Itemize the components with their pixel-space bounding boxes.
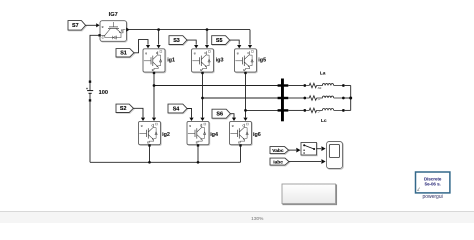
wire ig6 E to rail <box>240 146 242 162</box>
from tag Iabc <box>270 158 290 166</box>
svg-text:La: La <box>320 71 326 77</box>
svg-text:E: E <box>243 68 245 72</box>
svg-text:ig1: ig1 <box>167 58 175 64</box>
svg-text:Iabc: Iabc <box>273 159 283 165</box>
IGBT block ig1 <box>143 49 166 73</box>
wire load neutral <box>350 86 352 111</box>
from tag Vabc <box>270 147 289 155</box>
port square IG7 C <box>98 34 100 36</box>
port square ig5 E <box>244 72 246 74</box>
node dot left Lb <box>303 97 306 100</box>
junction dot phase C <box>244 109 247 112</box>
port square ig6 E <box>239 144 241 146</box>
svg-text:S5: S5 <box>216 38 223 44</box>
wire bus to branch La <box>288 85 303 87</box>
wire phase C node <box>246 74 281 118</box>
node dot left Lc <box>303 109 306 112</box>
wire drop to ig1 C <box>157 30 161 49</box>
bus bar tick phase C <box>278 109 289 111</box>
junction dot top bus phase B <box>206 28 209 31</box>
wire manual switch to scope <box>317 146 326 151</box>
arrow into ig5 C <box>248 45 252 48</box>
wire DC source minus down to bottom rail <box>89 102 91 163</box>
wire Iabc to scope <box>289 159 326 164</box>
DC voltage source 100V battery <box>86 83 93 99</box>
junction dot rail ig4 <box>197 161 200 164</box>
junction dot phase B <box>201 97 204 100</box>
wire S5 to ig5 gate <box>230 40 242 48</box>
svg-text:ig4: ig4 <box>210 132 218 138</box>
node dot right La <box>342 84 345 87</box>
svg-text:E: E <box>200 68 202 72</box>
svg-text:E: E <box>196 140 198 144</box>
IGBT block ig3 <box>192 49 215 73</box>
IGBT block ig4 <box>187 121 210 145</box>
resistor Lb <box>306 96 316 101</box>
svg-text:5e-06 s.: 5e-06 s. <box>425 181 441 186</box>
port arrow IG7 E output <box>126 28 129 32</box>
node dot left La <box>303 84 306 87</box>
svg-text:g: g <box>145 51 147 55</box>
wire branch La to neutral <box>345 85 351 87</box>
goto tag S3 <box>169 36 188 46</box>
resistor La <box>306 83 316 88</box>
tiny value mark row Lc <box>318 111 320 114</box>
wire S2 to ig2 gate <box>133 108 145 121</box>
status bar <box>0 212 474 223</box>
wire drop to ig3 C <box>205 30 209 49</box>
wire bus to branch Lc <box>288 109 303 111</box>
svg-text:g: g <box>237 51 239 55</box>
svg-text:Vabc: Vabc <box>272 148 284 154</box>
arrow into ig6 C <box>243 118 247 121</box>
goto tag S2 <box>116 104 134 113</box>
IGBT block ig5 <box>235 49 258 73</box>
wire Vabc to manual switch <box>289 148 301 153</box>
wire S3 to ig3 gate <box>187 40 198 48</box>
svg-text:Lc: Lc <box>321 118 327 124</box>
wire ig2 E to rail <box>149 146 151 162</box>
goto tag S6 <box>212 109 231 119</box>
port square DC source plus <box>89 81 91 83</box>
IGBT block ig6 <box>230 121 253 145</box>
svg-text:S7: S7 <box>72 23 79 29</box>
scope block <box>327 142 344 170</box>
tiny value mark row Lb <box>318 98 320 101</box>
resistor Lc <box>306 108 316 113</box>
svg-text:E: E <box>152 68 154 72</box>
svg-text:S3: S3 <box>173 38 180 44</box>
three-phase measurement bus bar <box>281 79 284 122</box>
port square ig1 E <box>153 72 155 74</box>
wire phase A node <box>154 74 280 118</box>
wire ig4 E to rail <box>197 146 199 162</box>
junction dot rail ig2 <box>148 161 151 164</box>
wire S7 to IG7 gate <box>86 23 100 27</box>
wire top DC bus from IG7 E <box>128 30 250 45</box>
svg-text:g: g <box>141 124 143 128</box>
wire branch Lc to neutral <box>345 109 351 111</box>
svg-text:powergui: powergui <box>422 194 442 200</box>
svg-text:ig3: ig3 <box>216 58 224 64</box>
bus bar tick phase A <box>278 84 289 86</box>
subsystem block blank <box>282 184 337 205</box>
IGBT block ig2 <box>139 121 162 145</box>
wire bottom DC rail <box>90 161 241 163</box>
svg-text:IG7: IG7 <box>109 12 118 18</box>
svg-text:E: E <box>147 140 149 144</box>
junction dot neutral <box>349 97 352 100</box>
svg-text:ig6: ig6 <box>253 132 261 138</box>
arrow into ig2 C <box>152 118 156 121</box>
goto tag S5 <box>212 36 231 46</box>
arrow into ig4 C <box>200 118 204 121</box>
wire S6 to ig6 gate <box>230 114 236 121</box>
svg-text:100: 100 <box>99 90 108 96</box>
svg-text:g: g <box>232 124 234 128</box>
svg-text:Discrete: Discrete <box>424 176 442 181</box>
wire branch Lb to neutral <box>345 97 351 99</box>
wire IG7 C to DC source plus <box>90 35 99 80</box>
goto tag S4 <box>168 104 188 114</box>
svg-text:E: E <box>238 140 240 144</box>
junction dot phase A <box>153 84 156 87</box>
port square ig4 E <box>197 144 199 146</box>
node dot right Lb <box>342 97 345 100</box>
junction dot top bus phase A <box>157 28 160 31</box>
goto tag S7 <box>68 21 86 31</box>
svg-text:g: g <box>102 24 104 28</box>
port square ig3 E <box>201 72 203 74</box>
manual switch block <box>301 143 317 156</box>
port square ig2 E <box>148 144 150 146</box>
wire S4 to ig4 gate <box>187 109 194 122</box>
wire S1 to ig1 gate <box>134 40 150 53</box>
inductor La <box>317 84 343 86</box>
port square DC source minus <box>89 99 91 101</box>
svg-text:S6: S6 <box>216 111 223 117</box>
svg-text:ig5: ig5 <box>258 57 266 63</box>
wire bus to branch Lb <box>288 97 303 99</box>
IGBT block IG7 <box>100 21 127 42</box>
inductor Lc <box>317 108 343 110</box>
svg-text:S1: S1 <box>120 51 127 57</box>
bus bar tick phase B <box>278 97 289 99</box>
svg-text:S2: S2 <box>120 106 127 112</box>
svg-text:ig2: ig2 <box>162 132 170 138</box>
inductor Lb <box>317 96 343 98</box>
svg-text:g: g <box>194 51 196 55</box>
svg-text:E: E <box>121 29 123 33</box>
powergui block <box>416 172 450 193</box>
svg-text:S4: S4 <box>173 106 180 112</box>
svg-text:g: g <box>189 124 191 128</box>
wire phase B node <box>203 74 281 118</box>
node dot right Lc <box>342 109 345 112</box>
goto tag S1 <box>116 49 135 58</box>
svg-text:130%: 130% <box>251 216 264 222</box>
